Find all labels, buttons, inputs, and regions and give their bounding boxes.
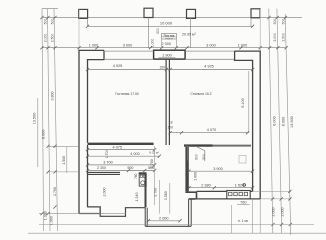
svg-text:2 000: 2 000 [162,42,172,46]
hall wall vertical from entrance [166,59,169,145]
svg-text:1.000: 1.000 [44,211,48,220]
svg-text:2.000: 2.000 [44,34,48,43]
stairs hatch box in bottom wall [227,191,250,199]
entrance stamp box [162,33,177,39]
bedroom left wall [185,147,188,192]
svg-text:4 000: 4 000 [130,152,140,156]
dimension 2 000 porch bottom [148,220,180,222]
svg-text:1 000: 1 000 [238,44,248,48]
bottom-left wall corner [79,207,100,214]
step down bottom-left [100,208,145,217]
left chain extension wires [42,48,79,172]
dimension chain 2 300 / 900 / 500 [88,170,155,172]
column K4 [251,9,260,18]
svg-text:2.500: 2.500 [50,34,54,43]
column K3 [187,9,196,18]
svg-text:13.500: 13.500 [33,113,37,125]
svg-text:2.700: 2.700 [53,187,57,196]
svg-text:2.000: 2.000 [273,33,277,42]
bathroom wall horizontal [88,172,121,174]
svg-text:500: 500 [50,19,54,25]
fixture box bathroom [139,174,146,186]
svg-text:4 070: 4 070 [207,128,217,132]
vertical dim wires hall [155,146,170,214]
svg-text:2 380: 2 380 [201,183,211,187]
column stub wires [88,18,251,48]
svg-text:1.340: 1.340 [135,193,139,202]
porch slab top edge line [42,8,58,10]
bottom wall right-part corner step [185,192,196,199]
svg-text:5.100: 5.100 [241,98,245,108]
bottom wall right part [196,191,261,199]
svg-text:20.95 м²: 20.95 м² [181,32,196,36]
entrance vertical extension wires [162,39,177,48]
svg-text:1.700: 1.700 [105,150,109,159]
svg-text:2.500: 2.500 [281,33,285,42]
svg-text:10 000: 10 000 [160,21,173,26]
right wall extension wires bottom [232,199,261,233]
outer wall top-right corner [235,51,261,199]
right dimension chain wires [269,9,282,233]
column K1 [79,9,88,18]
small circle symbol bedroom [243,184,246,187]
svg-text:2.000: 2.000 [280,208,284,217]
svg-text:8.000: 8.000 [281,117,285,127]
dimension line 4.070 [170,132,248,134]
extension line right wall top [259,9,261,51]
svg-text:300: 300 [156,28,160,34]
dimension line 4 925 / 150 / 4 925 [88,69,253,71]
svg-text:3.580: 3.580 [164,191,168,200]
svg-text:4 925: 4 925 [113,64,123,68]
svg-text:13.500: 13.500 [290,116,294,128]
svg-text:Спальня 15.2: Спальня 15.2 [190,92,211,96]
dimension line 3 900 bedroom [189,170,253,172]
svg-text:2.000: 2.000 [271,208,275,217]
svg-text:2 300: 2 300 [97,166,106,170]
svg-text:760: 760 [240,200,246,204]
svg-text:760: 760 [134,173,138,179]
window lines top-right opening [185,51,235,59]
svg-text:2.000: 2.000 [103,188,107,197]
porch right wall [189,199,192,226]
dimension line 4 075 [88,149,155,151]
dimension line 4 000 [88,155,160,157]
outer wall left lower inner line [87,145,89,207]
rotated dim 5.100 living room [248,71,250,133]
dimension line 3 700 [88,164,155,166]
bedroom top wall thin continuation [213,145,252,147]
left dimension chain wires [42,9,58,231]
svg-text:3 700: 3 700 [103,161,113,165]
svg-text:1.500: 1.500 [62,156,66,165]
svg-text:1 000: 1 000 [89,44,99,48]
faint fixture rect bedroom [239,156,246,164]
extension line left wall top [78,9,80,50]
svg-text:1 900: 1 900 [162,54,172,58]
svg-text:150: 150 [159,66,165,70]
svg-text:1.000: 1.000 [151,39,155,48]
outer wall top-left corner [79,50,104,213]
svg-text:900: 900 [195,154,199,160]
svg-text:4 075: 4 075 [113,145,123,149]
svg-text:Гостиная 17.50: Гостиная 17.50 [115,92,139,96]
svg-text:18: 18 [169,120,173,124]
ground line c [28,232,326,234]
svg-text:500: 500 [273,19,277,25]
svg-text:500: 500 [44,19,48,25]
entrance step block [154,50,186,59]
svg-text:300: 300 [202,154,206,160]
svg-text:вход уз: вход уз [165,38,172,40]
svg-text:3 000: 3 000 [206,44,216,48]
window lines top-left opening [104,51,154,59]
door swing bedroom [188,146,205,162]
bathroom wall vertical [145,172,147,207]
dimension 10 000 top [88,25,253,27]
right chain extension wires [253,48,291,199]
svg-text:3 000: 3 000 [123,44,133,48]
svg-text:3.800: 3.800 [51,92,55,101]
svg-text:900: 900 [127,166,133,170]
column K2 [144,8,153,17]
svg-text:8.000: 8.000 [272,116,276,126]
svg-text:1 520: 1 520 [235,183,245,187]
svg-text:1.600: 1.600 [193,172,197,181]
ground line b [39,224,314,226]
svg-text:500: 500 [281,19,285,25]
svg-text:2 000: 2 000 [159,216,169,220]
svg-text:3.700: 3.700 [150,159,154,168]
top dimension chain line [43,47,285,49]
dimension line 2 380 / 1 520 bedroom [189,187,253,189]
bedroom top wall [184,144,213,146]
porch left wall [145,208,147,227]
ground line a [39,213,126,215]
svg-text:8.000: 8.000 [41,130,45,140]
svg-text:3.700: 3.700 [153,188,157,197]
porch bottom edge [145,225,191,227]
svg-text:3 900: 3 900 [213,167,223,171]
porch front edge line [43,17,302,19]
svg-text:100: 100 [167,125,173,129]
svg-text:п. 1 кв: п. 1 кв [238,219,248,223]
middle partition wall [88,143,154,145]
svg-text:1.000: 1.000 [50,216,54,225]
svg-text:4 925: 4 925 [204,65,214,69]
